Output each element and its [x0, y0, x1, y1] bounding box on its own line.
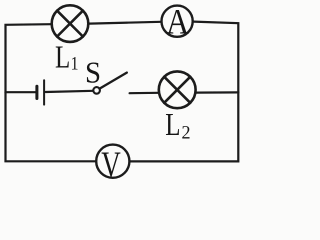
label L2 — [165, 107, 190, 143]
svg-text:A: A — [166, 3, 189, 42]
lamp L2 — [159, 71, 196, 108]
wire right-bottom segment — [130, 92, 239, 161]
wire A to top-right corner — [194, 22, 239, 93]
svg-text:V: V — [101, 145, 121, 182]
svg-text:L: L — [165, 107, 180, 143]
ammeter U-A circle — [162, 6, 193, 37]
wire top-left (battery loop top left segment) — [6, 24, 51, 92]
wire battery branch left — [6, 91, 36, 93]
switch S blade (open) — [100, 73, 127, 89]
wire L1 to A — [89, 22, 161, 24]
voltmeter U-V circle — [96, 145, 129, 178]
svg-text:1: 1 — [71, 54, 79, 74]
wire L2 to right border — [197, 91, 239, 93]
battery cell short plate — [35, 86, 38, 98]
svg-text:S: S — [85, 55, 101, 89]
svg-text:2: 2 — [182, 122, 191, 144]
switch S pivot — [93, 87, 100, 94]
svg-text:L: L — [55, 40, 70, 76]
label L1 — [55, 40, 78, 76]
wire left-bottom segment — [6, 92, 96, 161]
wire battery to switch — [46, 91, 94, 92]
wire switch to L2 — [130, 92, 159, 95]
battery cell long plate — [43, 80, 45, 104]
lamp L1 — [52, 5, 89, 42]
